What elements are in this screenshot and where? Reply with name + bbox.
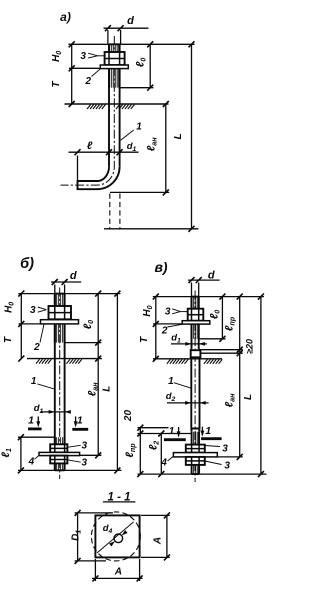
bottom reference line (fig v) xyxy=(137,473,266,475)
svg-text:1: 1 xyxy=(77,415,83,427)
svg-text:L: L xyxy=(243,394,254,400)
threaded bottom of bolt (fig b) xyxy=(55,437,65,470)
anchor plate 4 (fig v) xyxy=(173,453,217,457)
threaded top of stud (fig v) xyxy=(192,297,199,309)
ground hatching left (fig a) xyxy=(87,105,105,109)
dimension l1 (fig b) xyxy=(20,437,22,470)
svg-text:T: T xyxy=(51,80,62,87)
svg-text:≥20: ≥20 xyxy=(244,339,254,354)
svg-text:в): в) xyxy=(154,259,167,275)
nut 3 below plate (fig v) xyxy=(186,457,205,465)
hole diameter leader d4 (section 1-1) xyxy=(97,522,134,553)
dimension A right (section 1-1) xyxy=(166,515,168,557)
dimension A bottom (section 1-1) xyxy=(92,577,143,579)
dimension d (fig b) xyxy=(51,281,81,283)
threaded top of bolt (fig a) xyxy=(109,44,120,52)
top reference line (fig v) xyxy=(153,296,264,298)
svg-text:L: L xyxy=(102,386,113,392)
svg-text:3: 3 xyxy=(80,51,86,62)
svg-text:4: 4 xyxy=(28,457,35,468)
nut 3 above plate (fig v) xyxy=(186,445,205,453)
washer 2 (fig a) xyxy=(100,65,128,69)
svg-text:1: 1 xyxy=(136,122,142,133)
dimension L (fig a) xyxy=(191,44,193,229)
dimension 20 and l_pr left (fig v) xyxy=(139,428,141,474)
svg-text:3: 3 xyxy=(224,461,230,472)
svg-text:d: d xyxy=(127,15,134,27)
bottom reference line (fig a) xyxy=(104,228,198,230)
threaded bottom of bolt (fig v) xyxy=(192,432,200,474)
hook bend of bolt (fig a) xyxy=(78,167,120,189)
nut 3 top (fig b) xyxy=(49,306,72,319)
svg-text:T: T xyxy=(139,336,150,343)
dimension l0 (fig v) xyxy=(221,297,223,339)
svg-text:ℓ: ℓ xyxy=(87,140,93,152)
svg-text:б): б) xyxy=(20,256,34,272)
top reference line (fig a) xyxy=(69,43,195,45)
rod 1 lower shaft d2 (fig v) xyxy=(190,357,192,428)
dimension l0 (fig a) xyxy=(149,44,151,87)
dimension l_an (fig a) xyxy=(165,104,167,192)
svg-text:1: 1 xyxy=(168,376,174,387)
svg-text:2: 2 xyxy=(85,76,92,87)
dimension d (fig v) xyxy=(188,279,220,281)
svg-text:1: 1 xyxy=(205,425,211,437)
anchor plate 4 (fig b) xyxy=(39,452,80,455)
anchor plate square outline (section 1-1) xyxy=(95,515,139,557)
svg-text:2: 2 xyxy=(161,325,168,336)
svg-text:3: 3 xyxy=(165,307,171,318)
bolt top end face (fig a) xyxy=(109,43,120,45)
nut 3 (fig a) xyxy=(105,52,125,65)
svg-text:3: 3 xyxy=(82,440,88,451)
dimension L (fig v) xyxy=(260,297,262,475)
bolt 1 shaft (fig a) xyxy=(108,44,110,167)
washer 2 (fig b) xyxy=(41,320,79,324)
ground hatching right (fig b) xyxy=(67,359,82,363)
section mark 1 left (fig b) xyxy=(28,427,42,430)
svg-text:2: 2 xyxy=(33,342,40,353)
svg-text:T: T xyxy=(3,336,14,343)
washer 2 (fig v) xyxy=(182,321,210,324)
dimension chain l_pr 20 l_an right (fig v) xyxy=(239,297,241,457)
ground hatching left (fig v) xyxy=(167,359,188,363)
svg-text:d: d xyxy=(208,270,215,282)
thread below washer (fig b) xyxy=(55,324,65,343)
chained dimension l and d1 (fig a) xyxy=(69,151,139,153)
hidden projection lines (fig a) xyxy=(109,194,111,229)
svg-text:d: d xyxy=(70,270,77,282)
dimension D1 (section 1-1) xyxy=(77,513,79,561)
ground line (fig b) xyxy=(27,358,102,360)
svg-text:3: 3 xyxy=(222,444,228,455)
nut 3 above plate (fig b) xyxy=(50,444,67,452)
bolt 1 shaft (fig b) xyxy=(54,294,56,471)
dimension H0 and T line (fig v) xyxy=(155,297,157,359)
ground line (fig v) xyxy=(153,358,222,360)
dimension H0 and T line (fig a) xyxy=(71,44,73,104)
svg-text:20: 20 xyxy=(123,410,134,423)
nut 3 below plate (fig b) xyxy=(50,456,67,464)
svg-text:A: A xyxy=(152,537,163,545)
thread below washer (fig v) xyxy=(192,324,199,339)
upper stud shaft (fig v) xyxy=(191,297,193,349)
centerline of bolt (fig a) xyxy=(61,36,115,185)
dimension L (fig b) xyxy=(116,294,118,471)
dimension chain l0 and l_an (fig b) xyxy=(97,294,99,456)
centerline of bolt (fig v) xyxy=(194,291,196,483)
top reference line (fig b) xyxy=(18,293,120,295)
centerline of bolt (fig b) xyxy=(59,288,61,480)
dimension l2 (fig v) xyxy=(160,434,162,475)
ground hatching left (fig b) xyxy=(36,359,51,363)
svg-text:A: A xyxy=(114,567,122,578)
dimension H0 and T line (fig b) xyxy=(20,294,22,359)
svg-text:1: 1 xyxy=(169,425,175,437)
svg-text:3: 3 xyxy=(30,305,36,316)
round plate alternative circle D1 (section 1-1) xyxy=(91,512,140,561)
ground hatching right (fig a) xyxy=(116,105,134,109)
section mark 1 left (fig v) xyxy=(164,438,186,441)
svg-text:3: 3 xyxy=(82,457,88,468)
bolt hole d4 (section 1-1) xyxy=(114,534,123,543)
dimension d (fig a) xyxy=(104,27,149,29)
section mark 1 right (fig v) xyxy=(201,437,222,440)
bottom reference line (fig b) xyxy=(18,469,122,471)
svg-text:1: 1 xyxy=(28,415,34,427)
neck transition to bottom thread (fig v) xyxy=(191,429,199,432)
svg-text:а): а) xyxy=(60,10,71,24)
threaded top of bolt (fig b) xyxy=(55,294,65,306)
svg-text:1: 1 xyxy=(31,376,37,387)
thread below washer (fig a) xyxy=(109,69,120,88)
svg-text:L: L xyxy=(173,133,184,139)
coupling of composite bolt (fig v) xyxy=(191,349,201,350)
nut 3 upper (fig v) xyxy=(188,309,204,321)
ground hatching right (fig v) xyxy=(204,359,222,363)
section mark 1 right (fig b) xyxy=(72,428,88,431)
ground line (fig a) xyxy=(65,103,169,105)
